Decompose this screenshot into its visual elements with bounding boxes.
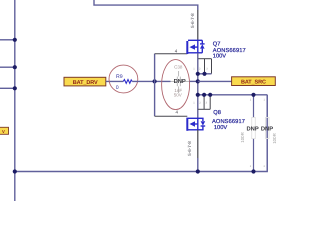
svg-text:DNP: DNP bbox=[246, 127, 258, 133]
node junction dot Q8 drain bottom bbox=[196, 169, 200, 173]
net label BAT_SRC bbox=[232, 77, 276, 86]
wire stub 2 bbox=[0, 66, 15, 68]
node junction dot BAT_SRC branch bbox=[196, 79, 200, 83]
svg-text:DNP: DNP bbox=[174, 79, 186, 85]
pin Q8 source pins 1-2-3 assembly bbox=[198, 95, 210, 110]
pin Q8 gate pin 4 wire bbox=[155, 115, 188, 117]
svg-text:R9: R9 bbox=[116, 74, 123, 80]
net label fragment at left edge bbox=[0, 127, 9, 134]
pin Q7 gate pin 4 wire bbox=[155, 53, 188, 55]
wire stub 3 bbox=[0, 87, 15, 89]
pin Q7 drain pins 5-6-7-8 bbox=[197, 10, 199, 40]
pin Q7 source pins 1-2-3 assembly bbox=[198, 59, 212, 74]
wire left vertical bus bbox=[14, 0, 16, 201]
wire stub 1 bbox=[0, 39, 15, 41]
wire gate column vertical bbox=[154, 54, 156, 116]
resistor R-right DNP column wire bbox=[266, 95, 268, 118]
node junction dot Q8 pin2 bbox=[202, 93, 206, 97]
wire Q7 source tie bbox=[198, 73, 212, 75]
transistor Q8 symbol bbox=[187, 118, 205, 131]
wire C38 to source column bbox=[190, 80, 198, 82]
transistor Q7 arrow bbox=[190, 44, 196, 49]
transistor Q8 arrow bbox=[190, 121, 196, 126]
node junction dot Q7 tie pin1 bbox=[196, 72, 200, 76]
node junction dot left resistor top bbox=[251, 93, 255, 97]
node junction dot bus-stub3 bbox=[13, 86, 17, 90]
node junction dot left resistor bottom bbox=[251, 169, 255, 173]
svg-text:100V: 100V bbox=[214, 125, 227, 131]
resistor R-left greyed body bbox=[252, 118, 256, 139]
node junction dot bus-stub2 bbox=[13, 65, 17, 69]
svg-text:V: V bbox=[2, 129, 5, 134]
node junction dot Q8 pin1 bbox=[196, 93, 200, 97]
svg-text:0: 0 bbox=[116, 85, 119, 91]
wire BAT_SRC bbox=[198, 80, 232, 82]
wire Q8 drain to bottom bbox=[197, 158, 199, 172]
wire top drain wire bbox=[94, 0, 198, 10]
svg-text:DNP: DNP bbox=[261, 127, 273, 133]
resistor R-left DNP column wire bbox=[253, 95, 255, 118]
svg-text:C38: C38 bbox=[174, 64, 183, 69]
wire BAT_DRV to R9 bbox=[106, 80, 123, 82]
wire Q7 source vertical bbox=[197, 53, 199, 119]
svg-text:100R: 100R bbox=[272, 133, 277, 144]
transistor Q8 body diode triangle bbox=[201, 121, 206, 125]
wire common source horizontal bbox=[198, 94, 267, 96]
wire R9 to gate node bbox=[132, 80, 170, 82]
net label BAT_DRV bbox=[64, 77, 106, 86]
node junction dot Q8 pin3 bbox=[208, 93, 212, 97]
svg-text:BAT_SRC: BAT_SRC bbox=[241, 80, 266, 86]
svg-text:Q8: Q8 bbox=[213, 110, 221, 116]
svg-text:100R: 100R bbox=[240, 132, 245, 143]
annotation ellipse around C38 bbox=[162, 60, 190, 110]
svg-text:5-6-7-8: 5-6-7-8 bbox=[187, 141, 192, 156]
resistor R9 zigzag bbox=[123, 80, 132, 84]
svg-text:Q7: Q7 bbox=[213, 41, 221, 47]
svg-text:50V: 50V bbox=[174, 93, 182, 98]
svg-text:BAT_DRV: BAT_DRV bbox=[73, 80, 98, 86]
node junction dot bus-stub1 bbox=[13, 38, 17, 42]
node junction dot gate net bbox=[153, 79, 157, 83]
transistor Q7 symbol bbox=[187, 40, 204, 54]
node junction dot Q7 tie pin2 bbox=[202, 72, 206, 76]
annotation ellipse around R9 bbox=[109, 65, 138, 93]
capacitor C38 greyed DNP pins bbox=[171, 71, 190, 93]
pin Q8 drain pins 5-6-7-8 bbox=[197, 130, 199, 158]
transistor Q7 body diode triangle bbox=[200, 44, 205, 48]
svg-text:100V: 100V bbox=[213, 54, 226, 60]
wire bottom horizontal bbox=[15, 95, 267, 172]
node junction dot bus-bottom bbox=[13, 169, 17, 173]
svg-text:5-6-7-8: 5-6-7-8 bbox=[190, 13, 195, 28]
resistor R-right greyed body bbox=[265, 118, 269, 139]
